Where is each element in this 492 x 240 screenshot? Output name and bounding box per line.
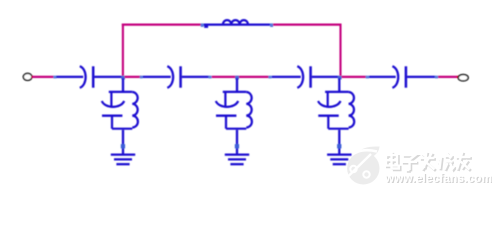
- char zi: [403, 155, 416, 160]
- char fa: [420, 157, 435, 159]
- shunt inductor coil: [132, 92, 138, 128]
- watermark logo elecfans ball: [347, 146, 380, 184]
- ground 2 pin marker: [235, 144, 239, 148]
- output pin red dot: [457, 76, 459, 78]
- wire blue C2 right: [182, 76, 210, 78]
- shunt capacitor top lead: [327, 92, 329, 107]
- wire magenta input: [33, 76, 55, 78]
- ground 1 pin marker: [121, 144, 125, 148]
- pin marker L2 right: [270, 23, 273, 27]
- shunt inductor coil: [349, 92, 355, 128]
- shunt capacitor straight plate: [318, 114, 338, 116]
- input pin red dot: [32, 76, 34, 78]
- wire end marker: [435, 76, 438, 79]
- input terminal port: [23, 73, 32, 80]
- shunt capacitor top lead: [110, 92, 112, 107]
- char dian: [387, 156, 398, 167]
- wire blue C3 to node3: [312, 76, 340, 78]
- shunt capacitor curved plate: [102, 101, 124, 107]
- shunt capacitor bottom lead: [111, 116, 113, 129]
- shunt capacitor top lead: [224, 92, 226, 107]
- tank3 bottom bar: [328, 128, 348, 130]
- char you: [457, 157, 472, 160]
- output terminal port: [458, 75, 468, 81]
- wire node2 down: [236, 78, 238, 92]
- wire magenta top left: [122, 24, 201, 26]
- wire tank1 to ground: [122, 130, 124, 154]
- wire end marker: [140, 76, 143, 79]
- watermark chinese text white layer: [386, 152, 471, 171]
- wire blue C1 to node1: [94, 76, 123, 78]
- tank2 top bar: [223, 91, 247, 93]
- shunt capacitor bottom lead: [225, 116, 227, 129]
- wire magenta node1 right: [125, 76, 142, 78]
- wire end marker: [268, 76, 271, 79]
- wire end marker: [208, 76, 211, 79]
- tank1 top bar: [109, 91, 133, 93]
- tank2 bottom bar: [226, 128, 246, 130]
- wire blue to C4: [369, 76, 396, 78]
- char shao: [440, 157, 442, 170]
- wire magenta through node2: [212, 76, 269, 78]
- tank1 bottom bar: [112, 128, 132, 130]
- svg-text:www.elecfans.com: www.elecfans.com: [384, 172, 492, 185]
- wire end marker: [53, 76, 56, 79]
- char you: [456, 156, 471, 158]
- wire end marker: [366, 76, 369, 79]
- wire node1 down: [122, 78, 124, 92]
- watermark chinese text shadow layer: [387, 153, 472, 172]
- tank3 top bar: [325, 91, 349, 93]
- wire node3 down: [338, 78, 340, 92]
- ground 3: [327, 153, 351, 155]
- char dian: [386, 155, 397, 166]
- shunt inductor coil: [246, 92, 252, 128]
- L2 pin dot: [204, 26, 208, 28]
- shunt capacitor curved plate: [216, 101, 238, 107]
- shunt capacitor straight plate: [216, 114, 236, 116]
- wire tank2 to ground: [236, 130, 238, 154]
- ground 1: [111, 153, 135, 155]
- ground 3 pin marker: [337, 144, 341, 148]
- char shao: [441, 158, 443, 171]
- wire tank3 to ground: [338, 130, 340, 154]
- wire magenta top right: [273, 24, 342, 26]
- wire blue C4 right: [407, 76, 435, 78]
- wire blue to C2: [143, 76, 171, 78]
- shunt capacitor bottom lead: [327, 116, 329, 129]
- wire magenta vertical left riser: [122, 24, 124, 76]
- inductor L2 (bridge): [204, 20, 271, 25]
- capacitor C3 (series): [297, 66, 310, 88]
- wire magenta to output: [438, 76, 458, 78]
- node 1 junction: [121, 76, 125, 80]
- ground 2: [225, 153, 249, 155]
- shunt capacitor curved plate: [318, 101, 340, 107]
- node 3 junction: [338, 76, 342, 80]
- wire blue to C3: [272, 76, 301, 78]
- char fa: [421, 158, 436, 161]
- pin marker L2 left: [201, 23, 204, 27]
- capacitor C4 (series): [392, 66, 406, 88]
- capacitor C2 (series): [167, 66, 180, 88]
- wire blue to C1: [56, 76, 83, 78]
- shunt capacitor straight plate: [102, 114, 122, 116]
- capacitor C1 (series): [80, 66, 93, 88]
- wire magenta node3 right: [342, 76, 367, 78]
- char zi: [404, 156, 417, 161]
- wire magenta vertical right riser: [339, 24, 341, 76]
- node 2 junction: [235, 76, 239, 80]
